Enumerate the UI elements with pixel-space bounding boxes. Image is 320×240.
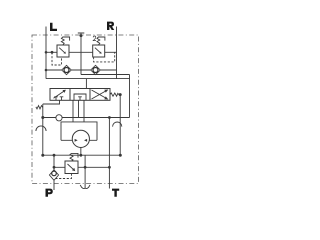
crossing hop right: [113, 122, 122, 127]
relief valve 3 pilot (dashed): [55, 174, 72, 179]
pilot line valve1 (dashed): [52, 52, 62, 65]
relief valve 2 body: [93, 45, 105, 57]
check valve CV2 (diamond with ball): [91, 65, 101, 74]
relief valve 1 body: [57, 45, 69, 57]
wire drain to tank: [84, 155, 86, 188]
wire gauge gallery y117.5: [43, 117, 130, 119]
DV right position: crossed arrows: [92, 90, 108, 99]
relief valve 1 internal arrow: [59, 48, 64, 53]
wire L to valve1: [46, 51, 57, 53]
port label L: [50, 23, 57, 31]
wire valve1 to valve2: [69, 51, 93, 53]
motor block top edge and sides: [61, 122, 97, 140]
plugged port at top center: [78, 33, 85, 75]
relief valve 2 spring: [97, 37, 105, 45]
wire bottom gallery y155: [43, 154, 121, 156]
port label P: [46, 189, 53, 197]
wire spring-end drain line: [119, 95, 121, 156]
pilot line valve 2 (dashed): [94, 52, 115, 62]
relief valve 3 spring: [70, 153, 78, 161]
wire T line: [108, 118, 110, 189]
relief valve 2 internal arrow: [95, 48, 100, 53]
wire L port line: [45, 27, 47, 79]
wire valve port A drop: [72, 100, 74, 122]
directional valve DV main body (3 positions): [50, 89, 110, 101]
motor feed stubs: [61, 139, 97, 141]
wire anti-cavitation line: [46, 69, 117, 71]
tank crow's foot: [80, 185, 90, 189]
wire R port line: [116, 27, 118, 79]
DV right spring: [110, 93, 119, 96]
wire center gallery y74.5: [81, 74, 130, 76]
port label T: [112, 189, 119, 197]
relief valve 1 spring: [61, 37, 69, 45]
enclosure dash-dot border: [32, 35, 139, 184]
wire valve port B drop: [83, 100, 85, 122]
wire box3 gallery y167.3: [54, 166, 109, 168]
wire work line y78.6: [46, 78, 130, 80]
check valve CV1 (diamond with ball): [62, 65, 72, 74]
wire P line: [53, 155, 55, 190]
relief valve 3 internal arrow: [68, 164, 74, 170]
DV left spring W: [43, 100, 60, 104]
DV centre position: U bridge + stub: [74, 94, 86, 100]
check valve CV3 on P (diamond with ball): [49, 170, 58, 181]
relief valve 3 body: [65, 161, 78, 174]
wire valve port neutral drop: [78, 100, 80, 117]
DV left position: diagonal arrow + blocked ports: [54, 91, 64, 98]
wire valve2 to R: [105, 51, 117, 53]
crossing hop left: [36, 126, 46, 131]
wire into valve top: [85, 79, 87, 89]
wire motor bottom port: [80, 147, 82, 155]
gauge port circle: [56, 115, 62, 121]
hydraulic motor M circle: [72, 130, 89, 147]
label 2: [93, 36, 96, 41]
wire left drop line: [42, 104, 44, 155]
wire right gallery down: [129, 75, 131, 118]
port label R: [107, 22, 114, 30]
